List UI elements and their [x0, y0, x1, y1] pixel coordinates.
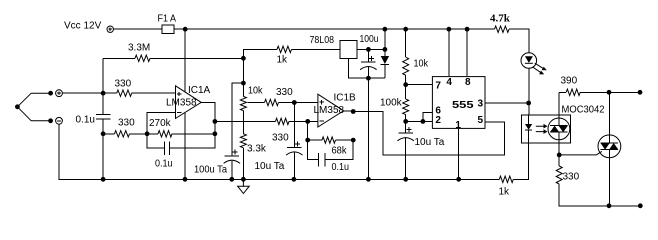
terminal input + — [56, 90, 63, 97]
capacitor 100u (regulator output) — [367, 49, 369, 78]
wire regulator ground to rail — [367, 78, 369, 179]
wire 10k top branch — [232, 58, 244, 156]
svg-text:7: 7 — [435, 81, 441, 92]
fuse F1 — [162, 25, 174, 33]
wire 68k line — [308, 139, 354, 141]
svg-text:330: 330 — [272, 132, 289, 143]
svg-text:100k: 100k — [380, 98, 403, 109]
node IC1B output — [351, 109, 356, 114]
resistor 1k — [277, 46, 292, 52]
resistor 330 (IC1B -in) — [276, 118, 289, 124]
node triac MT2 top junction — [607, 90, 612, 95]
wire input+ line — [62, 92, 175, 94]
wire IC1A V+ supply stub — [184, 29, 186, 92]
wire IC1B output to 555 pin5 — [344, 111, 505, 155]
svg-text:555: 555 — [452, 100, 474, 111]
node IC1B +in junction — [292, 100, 297, 105]
wire 555 pin3 output — [486, 102, 529, 104]
wire 100k bottom to pins 2/6 — [406, 112, 432, 121]
wire 555 pin4 — [448, 29, 450, 76]
wire 330 to 270k line — [103, 133, 215, 135]
svg-text:8: 8 — [465, 77, 471, 88]
MOC triac — [548, 118, 570, 140]
resistor 4.7k — [495, 26, 510, 32]
MOC LED — [528, 115, 530, 124]
svg-text:3: 3 — [478, 99, 484, 110]
node 68k left — [305, 138, 310, 143]
resistor 270k — [158, 131, 172, 137]
node IC1A ground junction — [183, 177, 188, 182]
svg-text:5: 5 — [478, 115, 484, 126]
LED indicator — [521, 53, 537, 69]
node 555 pin7 junction — [403, 82, 408, 87]
wire bias line — [103, 58, 243, 93]
svg-text:LM358: LM358 — [166, 97, 197, 108]
svg-text:IC1B: IC1B — [334, 93, 357, 104]
svg-text:1k: 1k — [499, 187, 511, 198]
resistor 1k (MOC LED) — [499, 176, 513, 182]
svg-text:10u Ta: 10u Ta — [415, 137, 445, 148]
wire 555 pin1 to rail — [458, 129, 460, 179]
wire input- to ground rail — [59, 124, 103, 179]
resistor 330 (IC1B +in) — [265, 99, 279, 105]
wire IC1A output — [201, 102, 215, 148]
input connector node — [15, 104, 20, 109]
wire regulator ground pin — [348, 58, 385, 78]
terminal output top — [638, 90, 643, 95]
svg-text:2: 2 — [435, 115, 441, 126]
node 10u Ta rail junction — [292, 177, 297, 182]
svg-text:330: 330 — [563, 172, 580, 183]
wire LED cathode to MOC — [528, 68, 530, 115]
optocoupler MOC3042 box — [522, 115, 571, 143]
svg-text:0.1u: 0.1u — [155, 159, 173, 170]
resistor 330 (input +) — [117, 90, 132, 96]
resistor 68k — [322, 137, 335, 143]
svg-text:IC1A: IC1A — [188, 85, 211, 96]
resistor 10k (555 pin7 pullup) — [405, 29, 407, 57]
node bias/regulator junction — [241, 56, 246, 61]
node fuse output junction — [183, 27, 188, 32]
node 3.3k rail junction — [241, 177, 246, 182]
node 100u Ta rail junction — [229, 177, 234, 182]
svg-text:78L08: 78L08 — [310, 35, 335, 46]
wire feedback cap loop — [147, 134, 215, 148]
node Vcc taps on top rail — [383, 27, 388, 32]
wire IC1B feedback cap loop — [308, 140, 354, 160]
node 68k right — [351, 138, 356, 143]
wire 3.3k to rail — [242, 148, 244, 180]
resistor 390 — [566, 89, 580, 95]
capacitor 0.1u (input filter) — [96, 115, 110, 120]
svg-text:Vcc 12V: Vcc 12V — [64, 20, 102, 31]
triac Q1 — [598, 135, 621, 158]
resistor 330 (IC1A input) — [115, 131, 130, 137]
IC 555 — [432, 77, 485, 129]
svg-text:MOC3042: MOC3042 — [562, 104, 605, 115]
svg-text:0.1u: 0.1u — [332, 162, 350, 173]
capacitor 100u Ta — [231, 161, 233, 179]
wire feedback to inverting input — [147, 112, 175, 134]
wire 10k bottom to 3.3k — [242, 111, 244, 134]
regulator 78L08 — [340, 40, 357, 58]
wire pin7 stub — [406, 75, 432, 99]
terminal Vcc+ — [107, 26, 113, 32]
wire triac gate — [559, 151, 602, 155]
node 10k top junction — [241, 81, 246, 86]
wire 10k tap to 330 — [248, 102, 318, 104]
resistor 100k — [403, 99, 409, 114]
svg-text:F1 A: F1 A — [158, 14, 177, 25]
svg-text:330: 330 — [115, 78, 132, 89]
resistor 3.3k — [240, 134, 246, 148]
node 100k bottom junction — [403, 119, 408, 124]
svg-text:10u Ta: 10u Ta — [255, 161, 285, 172]
wire ground rail — [59, 143, 528, 180]
resistor 3.3M — [135, 55, 150, 61]
capacitor 0.1u (IC1B feedback) — [318, 153, 325, 166]
node regulator ground rail junction — [366, 177, 371, 182]
op-amp IC1B — [318, 94, 344, 127]
node pin2/6 tie — [421, 119, 426, 124]
svg-text:390: 390 — [561, 75, 578, 86]
wire bias divider vertical — [102, 93, 104, 179]
svg-text:330: 330 — [118, 118, 135, 129]
node IC1B -in junction — [305, 119, 310, 124]
node IC1A output to 330 — [213, 119, 218, 124]
svg-text:330: 330 — [276, 87, 293, 98]
op-amp IC1A — [176, 86, 202, 119]
node 555 pin3 to LED junction — [526, 101, 531, 106]
svg-text:270k: 270k — [149, 118, 172, 129]
svg-text:68k: 68k — [332, 146, 348, 157]
node triac MT1 bottom junction — [607, 203, 612, 208]
MOC coupling arrows — [536, 126, 544, 131]
svg-text:10k: 10k — [248, 85, 263, 96]
svg-text:0.1u: 0.1u — [76, 115, 95, 126]
svg-text:4.7k: 4.7k — [490, 13, 511, 25]
terminal output bottom — [638, 203, 643, 208]
capacitor 0.1u (IC1A feedback) — [164, 141, 169, 155]
svg-text:100u Ta: 100u Ta — [194, 164, 227, 175]
wire IC1A V- supply stub — [184, 113, 186, 179]
wire 555 pin8 — [466, 29, 468, 76]
node pin1 rail junction — [456, 177, 461, 182]
svg-text:4: 4 — [446, 77, 452, 88]
svg-text:10k: 10k — [414, 59, 429, 70]
svg-text:100u: 100u — [360, 34, 379, 45]
wire triac MT2 — [608, 92, 610, 206]
wire IC1A out to IC1B -in — [215, 120, 318, 122]
terminal input - — [56, 117, 63, 124]
node regulator ground junction — [366, 76, 371, 81]
svg-text:1k: 1k — [277, 55, 289, 66]
node IC1A feedback left — [145, 131, 150, 136]
node MOC triac bottom junction — [557, 153, 562, 158]
wire IC1B feedback left — [307, 121, 309, 140]
capacitor 10u Ta (IC1B +in) — [293, 103, 295, 180]
wire regulator output — [357, 48, 385, 50]
wire MOC triac top to 390 — [558, 92, 560, 155]
svg-text:3.3M: 3.3M — [128, 43, 150, 54]
ground symbol — [238, 179, 250, 193]
LED light arrows — [533, 63, 544, 73]
node divider lower junction — [101, 131, 106, 136]
svg-text:LM358: LM358 — [314, 105, 345, 116]
wire input diagonals — [17, 93, 50, 121]
node IC1A output to 270k — [213, 131, 218, 136]
node 10u Ta timing rail junction — [403, 177, 408, 182]
wire 1k to regulator — [243, 49, 339, 58]
wire Vcc 12V top rail — [113, 29, 529, 53]
capacitor 10u Ta (timing) — [405, 121, 407, 179]
resistor 10k (divider) — [240, 96, 246, 110]
diode zener — [384, 29, 386, 78]
resistor 330 (gate) — [556, 166, 562, 184]
node divider rail junction — [101, 177, 106, 182]
svg-text:3.3k: 3.3k — [247, 144, 267, 155]
